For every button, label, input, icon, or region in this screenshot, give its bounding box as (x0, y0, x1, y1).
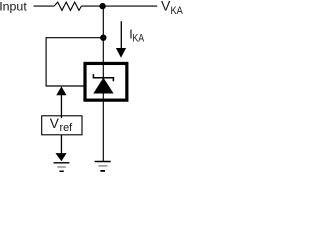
svg-text:Input: Input (0, 0, 27, 14)
label IKA (129, 27, 144, 44)
wire Input to resistor (34, 5, 55, 7)
current arrow IKA (116, 21, 126, 58)
wire anode to ground (102, 94, 104, 162)
ground (anode) (95, 162, 111, 171)
wire resistor to VKA (81, 5, 157, 7)
ground (Vref) (54, 163, 70, 172)
net label VKA (161, 0, 183, 17)
wire inside box top (cathode) (102, 62, 104, 78)
svg-text:KA: KA (132, 33, 144, 45)
wire feedback loop (46, 38, 103, 86)
zener cathode bar (93, 74, 113, 81)
svg-text:KA: KA (171, 5, 184, 17)
node reference feedback junction (100, 35, 106, 41)
svg-text:V: V (50, 116, 60, 131)
regulator body box U1 (85, 63, 127, 100)
wire cathode vertical (102, 6, 104, 64)
voltage arrow Vref up (56, 86, 66, 115)
label box Vref (42, 116, 82, 135)
zener anode triangle (93, 78, 113, 94)
node cathode junction (99, 3, 105, 9)
voltage arrow Vref down to ground (55, 135, 66, 161)
svg-text:V: V (161, 0, 171, 14)
svg-text:ref: ref (60, 122, 74, 134)
resistor R1 (54, 2, 81, 10)
